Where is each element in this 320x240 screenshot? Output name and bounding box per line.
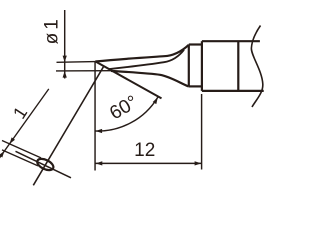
svg-text:12: 12 (134, 140, 155, 161)
svg-text:ø1: ø1 (42, 16, 63, 44)
svg-text:1: 1 (9, 103, 31, 122)
